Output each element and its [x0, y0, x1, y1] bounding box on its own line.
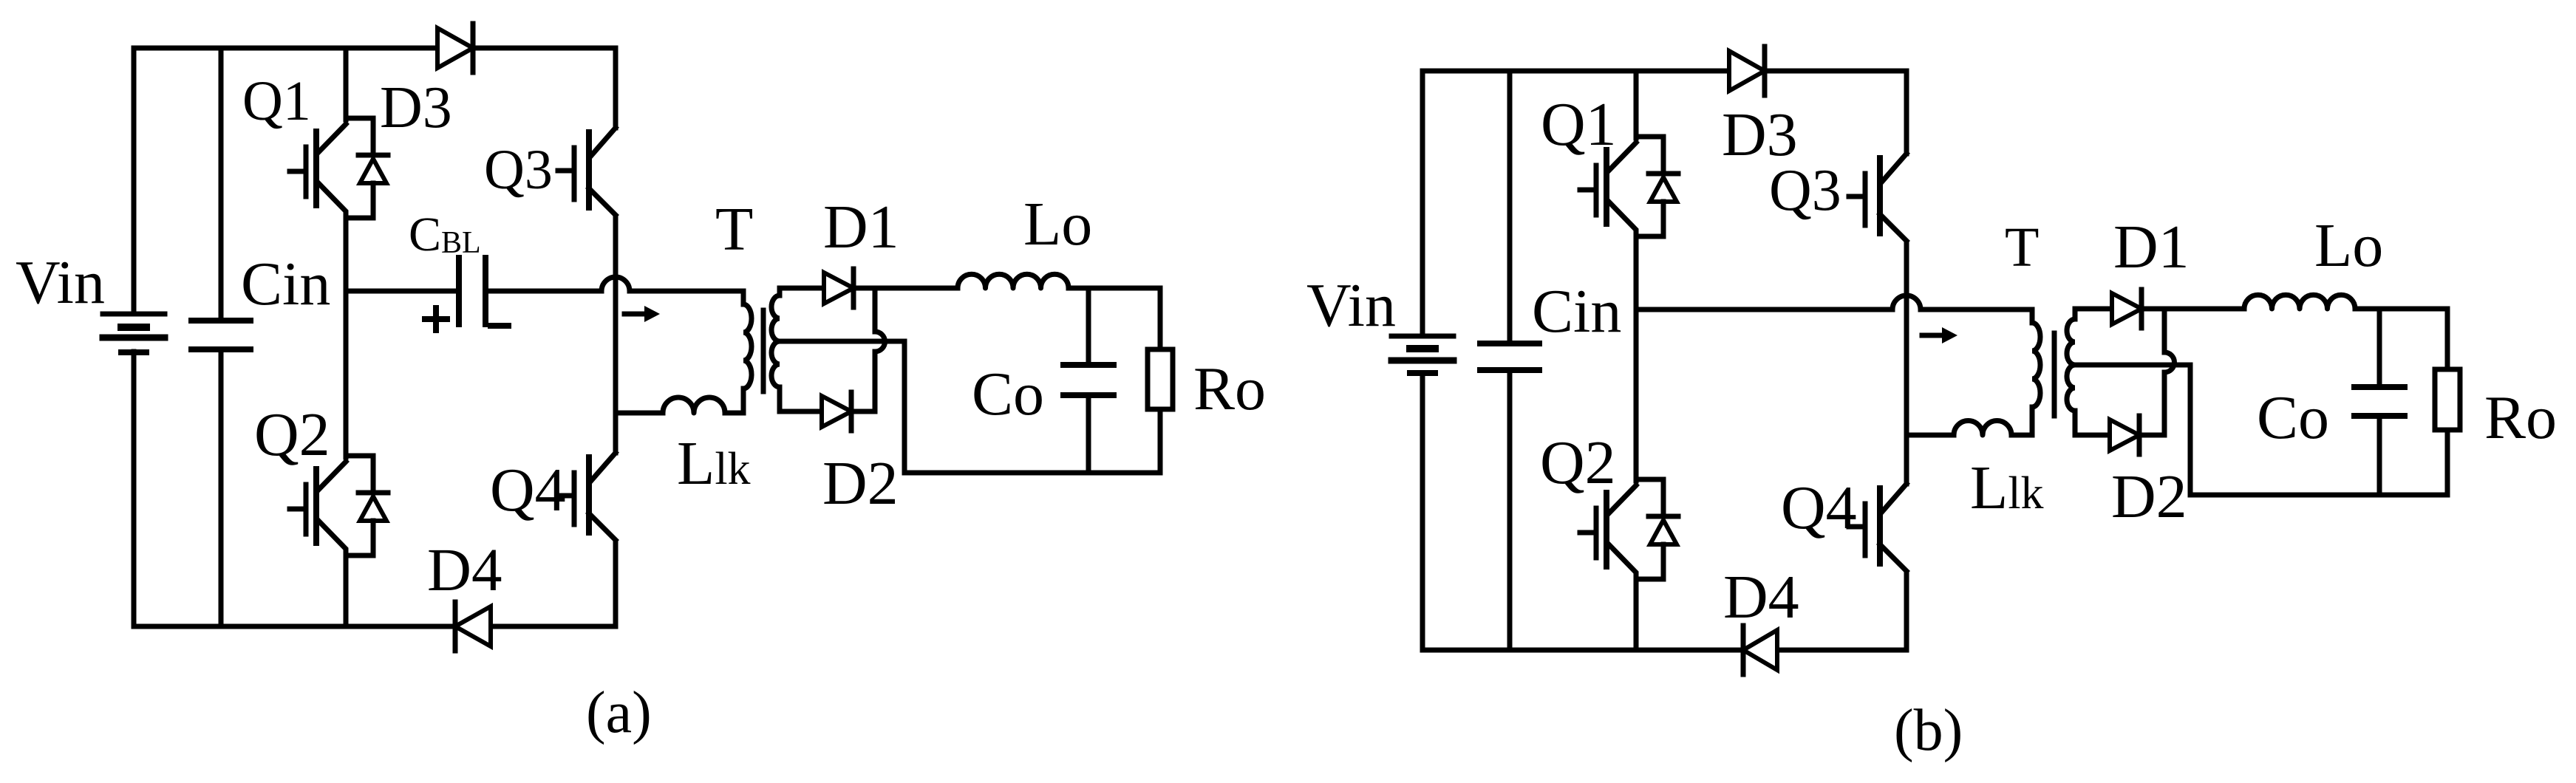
- svg-text:(a): (a): [586, 680, 652, 745]
- svg-text:Co: Co: [972, 360, 1044, 428]
- wire Ro bottom lead (b): [2445, 430, 2450, 495]
- wire Vin leg upper (b): [1420, 71, 1425, 336]
- resistor Ro (a): [1148, 349, 1173, 409]
- wire output bottom rail (a): [904, 471, 1160, 476]
- capacitor Cin (b): [1480, 343, 1539, 370]
- wire mid rail to transformer (a): [630, 289, 743, 294]
- svg-text:T: T: [715, 195, 753, 264]
- transistor Q4 (b): [1849, 484, 1907, 571]
- wire leg1 upper (a): [344, 48, 349, 120]
- transistor Q4 (a): [558, 453, 616, 540]
- inductor Lo (a): [958, 274, 1069, 288]
- wire Co top lead (b): [2377, 309, 2382, 387]
- transformer T core (b): [2052, 333, 2057, 416]
- svg-text:Cin: Cin: [1532, 277, 1621, 346]
- node A midpoint to mid rail: [344, 289, 349, 294]
- svg-text:Q2: Q2: [1540, 428, 1616, 497]
- wire Vin leg upper (a): [132, 48, 137, 314]
- svg-text:Vin: Vin: [1306, 271, 1396, 340]
- svg-text:Ro: Ro: [1193, 355, 1266, 423]
- wire Co top lead (a): [1086, 288, 1091, 365]
- current direction arrow (b): [1922, 327, 1957, 343]
- wire Llk to leg2 (b): [1907, 433, 1954, 438]
- wire hop over vertical at leg2 (b): [1892, 295, 1921, 310]
- diode D2 (b): [2110, 416, 2139, 454]
- svg-text:D2: D2: [822, 449, 899, 518]
- wire Vin leg lower (a): [132, 352, 137, 626]
- svg-text:D3: D3: [380, 75, 452, 140]
- battery Vin (a): [103, 314, 165, 352]
- transistor Q2 (b): [1580, 479, 1678, 579]
- svg-text:Q1: Q1: [1541, 90, 1617, 159]
- wire hop over vertical at leg2 (a): [602, 277, 630, 291]
- wire Lo to Ro top (b): [2355, 307, 2447, 312]
- wire Llk to leg2 (a): [616, 411, 663, 416]
- svg-text:Cin: Cin: [241, 250, 330, 318]
- transistor Q1 (a): [290, 118, 388, 218]
- transistor Q3 (b): [1849, 154, 1907, 241]
- wire cathode link vertical (b): [2164, 309, 2175, 433]
- svg-text:Ro: Ro: [2484, 383, 2557, 452]
- svg-text:Q3: Q3: [1769, 158, 1841, 223]
- diode D1 (a): [824, 269, 853, 307]
- diode D3 (a): [437, 24, 473, 72]
- transformer T core (a): [761, 310, 766, 391]
- svg-text:Q4: Q4: [490, 456, 566, 524]
- svg-text:D2: D2: [2111, 462, 2187, 531]
- capacitor Co (b): [2354, 387, 2405, 416]
- wire top rail (a): [134, 48, 616, 128]
- inductor Llk (b): [1954, 421, 2011, 436]
- wire D1 cathode to Lo (b): [2143, 307, 2244, 312]
- wire cathode link vertical (a): [875, 288, 885, 411]
- wire bottom rail (b): [1422, 648, 1907, 653]
- wire leg2 lower (a): [613, 541, 619, 626]
- wire Cin leg upper (a): [219, 48, 224, 321]
- wire mid rail (b): [1636, 307, 1892, 312]
- transformer T primary winding (b): [2011, 310, 2040, 435]
- svg-text:D1: D1: [823, 193, 899, 261]
- wire leg1 upper (b): [1634, 71, 1639, 138]
- wire Llk to primary (b): [2011, 433, 2032, 438]
- plus sign CBL: [425, 308, 447, 330]
- wire Cin leg lower (b): [1507, 370, 1513, 650]
- wire leg1 lower (b): [1634, 579, 1639, 650]
- wire center tap (b): [2075, 365, 2190, 495]
- wire leg1 lower (a): [344, 555, 349, 626]
- wire Cin leg upper (b): [1507, 71, 1513, 343]
- diode D1 (b): [2112, 290, 2141, 328]
- wire Ro top lead (b): [2445, 309, 2450, 369]
- wire Cin leg lower (a): [219, 349, 224, 626]
- svg-text:Q3: Q3: [484, 139, 553, 201]
- capacitor Co (a): [1063, 365, 1114, 395]
- minus sign CBL: [491, 323, 508, 329]
- transistor Q3 (a): [558, 128, 616, 215]
- current direction arrow (a): [624, 306, 660, 322]
- wire Co bottom lead (a): [1086, 395, 1091, 473]
- diode D4 (a): [455, 602, 491, 651]
- wire leg1 middle (a): [344, 218, 349, 457]
- svg-text:D4: D4: [1723, 563, 1799, 632]
- wire mid rail left (a): [346, 289, 459, 294]
- transformer T primary winding (a): [725, 291, 752, 413]
- capacitor CBL: [459, 258, 485, 324]
- wire Co bottom lead (b): [2377, 416, 2382, 495]
- wire D1 cathode to Lo (a): [855, 286, 958, 291]
- svg-text:Lo: Lo: [2314, 211, 2383, 280]
- wire D2 cathode to link (a): [853, 409, 875, 414]
- capacitor Cin (a): [191, 321, 251, 349]
- wire leg2 middle (b): [1904, 242, 1909, 484]
- svg-text:D4: D4: [427, 536, 502, 604]
- resistor Ro (b): [2435, 369, 2460, 430]
- svg-text:Co: Co: [2257, 383, 2329, 452]
- svg-text:T: T: [2005, 216, 2039, 278]
- wire Lo to Ro top (a): [1069, 286, 1160, 291]
- wire top rail (b): [1422, 71, 1907, 154]
- wire Vin leg lower (b): [1420, 373, 1425, 650]
- wire bottom rail (a): [134, 624, 616, 629]
- battery Vin (b): [1391, 336, 1454, 373]
- transformer T secondary winding (b): [2067, 309, 2112, 435]
- wire output bottom rail (b): [2190, 493, 2447, 498]
- wire Ro bottom lead (a): [1158, 409, 1163, 473]
- wire leg2 middle (a): [613, 216, 619, 453]
- svg-text:Lo: Lo: [1023, 190, 1092, 259]
- wire leg1 middle (b): [1634, 236, 1639, 481]
- transistor Q2 (a): [290, 456, 388, 555]
- svg-text:Q4: Q4: [1781, 473, 1857, 542]
- diode D4 (b): [1743, 626, 1777, 674]
- svg-text:Q2: Q2: [254, 400, 330, 469]
- inductor Llk (a): [663, 397, 725, 413]
- wire mid rail to transformer (b): [1921, 307, 2032, 312]
- svg-text:D1: D1: [2113, 213, 2190, 281]
- wire leg2 lower (b): [1904, 572, 1909, 650]
- svg-text:(b): (b): [1894, 698, 1963, 763]
- svg-text:Q1: Q1: [242, 70, 311, 132]
- inductor Lo (b): [2244, 295, 2355, 309]
- wire Llk to primary (a): [725, 411, 743, 416]
- transistor Q1 (b): [1580, 137, 1678, 236]
- wire D2 cathode to link (b): [2141, 433, 2164, 438]
- transformer T secondary winding (a): [771, 288, 824, 411]
- wire center tap (a): [780, 341, 904, 473]
- svg-text:Vin: Vin: [16, 248, 105, 317]
- wire mid rail right (a): [485, 289, 602, 294]
- diode D3 (b): [1729, 47, 1765, 95]
- wire Ro top lead (a): [1158, 288, 1163, 349]
- diode D2 (a): [822, 392, 851, 431]
